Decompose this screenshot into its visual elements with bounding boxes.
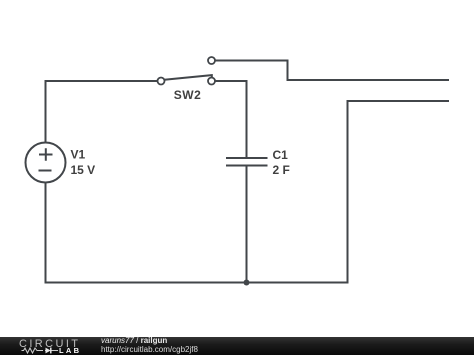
svg-text:C1: C1 bbox=[273, 148, 289, 162]
svg-text:SW2: SW2 bbox=[174, 88, 202, 102]
svg-text:15 V: 15 V bbox=[71, 163, 96, 177]
svg-text:V1: V1 bbox=[71, 148, 86, 162]
svg-text:2 F: 2 F bbox=[273, 163, 290, 177]
svg-text:LAB: LAB bbox=[59, 346, 80, 355]
